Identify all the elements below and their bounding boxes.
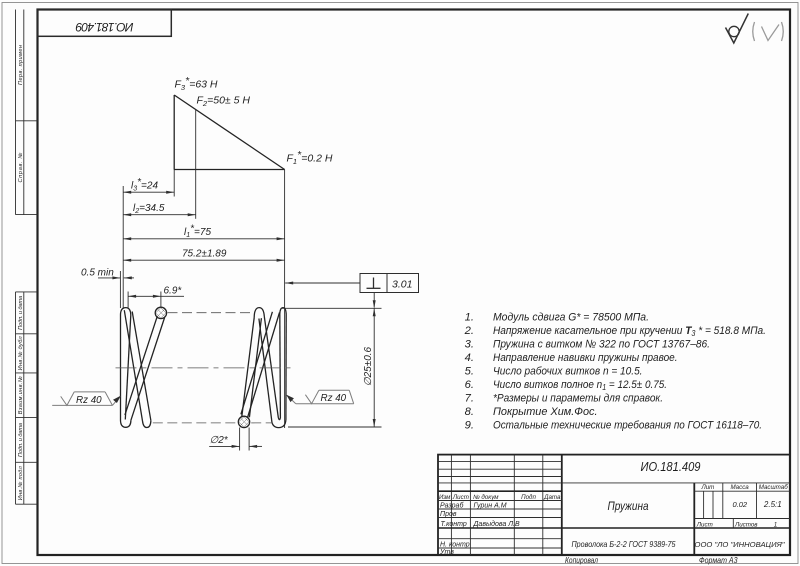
svg-text:ИО.181.409: ИО.181.409 xyxy=(641,459,701,474)
svg-text:0.5 min: 0.5 min xyxy=(81,267,114,278)
end coil top bend xyxy=(121,308,131,315)
right coil group xyxy=(238,308,286,428)
svg-text:Число витков полное n1 = 12.5±: Число витков полное n1 = 12.5± 0.75. xyxy=(493,379,667,392)
dimension ⌀25±0.6 xyxy=(282,308,382,427)
roughness Rz 40 right xyxy=(286,390,353,404)
svg-text:3.: 3. xyxy=(465,338,474,350)
right coil ascending wire front edge xyxy=(242,318,254,417)
F2 ordinate line xyxy=(195,110,197,219)
svg-text:Модуль сдвига G* = 78500 МПа.: Модуль сдвига G* = 78500 МПа. xyxy=(493,311,649,323)
title block texts xyxy=(439,484,788,529)
svg-text:9.: 9. xyxy=(465,419,474,431)
svg-text:Инв.№ дубл: Инв.№ дубл xyxy=(18,335,24,370)
svg-text:Направление навивки пружины пр: Направление навивки пружины правое. xyxy=(493,352,678,364)
svg-text:Лит: Лит xyxy=(700,484,714,491)
right coil descending wire front edge xyxy=(259,319,272,420)
svg-text:Напряжение касательное при кру: Напряжение касательное при кручении Т3 *… xyxy=(493,325,766,338)
force diagram triangle xyxy=(174,95,284,170)
svg-text:Разраб: Разраб xyxy=(440,502,464,510)
right coil ascending wire back edge xyxy=(249,318,261,417)
coil descending wire back edge xyxy=(132,312,151,421)
extension lines xyxy=(120,170,284,429)
phantom dashed bottom line xyxy=(153,422,238,424)
svg-text:Rz 40: Rz 40 xyxy=(76,395,102,406)
svg-text:Покрытие Хим.Фос.: Покрытие Хим.Фос. xyxy=(493,406,598,418)
svg-text:Листов: Листов xyxy=(734,522,758,529)
svg-text:Дата: Дата xyxy=(543,494,561,501)
coil bottom bend right xyxy=(143,421,151,428)
end coil inner edge xyxy=(125,315,131,420)
svg-text:Пружина с витком № 322 по ГОСТ: Пружина с витком № 322 по ГОСТ 13767–86. xyxy=(493,338,710,350)
end coil outer edge xyxy=(120,315,122,421)
svg-text:Масса: Масса xyxy=(730,484,749,491)
spring xyxy=(121,307,167,427)
svg-text:Пружина: Пружина xyxy=(608,499,649,513)
svg-text:Масштаб: Масштаб xyxy=(759,484,789,491)
svg-text:Лист: Лист xyxy=(696,522,713,529)
right coil descending wire back edge xyxy=(264,317,278,418)
svg-text:Пров: Пров xyxy=(440,511,457,518)
left column lower block xyxy=(16,292,38,504)
technical requirements xyxy=(464,311,766,431)
svg-text:Взаим.инв.№: Взаим.инв.№ xyxy=(18,376,24,414)
svg-text:Давыдова Л.В: Давыдова Л.В xyxy=(473,520,520,528)
coil descending wire front edge xyxy=(124,310,142,421)
svg-text:Формат А3: Формат А3 xyxy=(699,556,738,565)
title block xyxy=(438,455,790,555)
svg-text:7.: 7. xyxy=(465,392,474,404)
svg-text:Подп. и дата: Подп. и дата xyxy=(18,423,24,457)
coil ascending wire back edge xyxy=(125,316,157,415)
right end coil inner edge xyxy=(279,314,282,418)
svg-text:∅25±0.6: ∅25±0.6 xyxy=(363,346,374,386)
svg-text:6.: 6. xyxy=(465,379,474,391)
svg-text:1: 1 xyxy=(774,522,777,529)
svg-text:2.: 2. xyxy=(464,325,474,337)
end coil bottom bend xyxy=(121,420,131,427)
svg-text:8.: 8. xyxy=(465,406,474,418)
svg-text:2.5:1: 2.5:1 xyxy=(763,500,782,509)
svg-text:Инв.№ подл: Инв.№ подл xyxy=(18,465,24,500)
spring axis line xyxy=(116,367,291,369)
dimension l1*=75 xyxy=(123,224,284,241)
coil ascending wire front edge xyxy=(131,318,165,421)
svg-text:75.2±1.89: 75.2±1.89 xyxy=(182,249,227,260)
svg-text:∅2*: ∅2* xyxy=(210,435,229,446)
dimension 75.2±1.89 xyxy=(123,249,284,262)
svg-text:Число рабочих витков n = 10.5.: Число рабочих витков n = 10.5. xyxy=(493,365,643,377)
right coil bottom bend xyxy=(272,420,286,428)
right wire section circle xyxy=(238,416,249,427)
right coil top bend xyxy=(254,308,264,318)
dimension l2=34.5 xyxy=(123,203,196,216)
right back wire back edge xyxy=(241,312,273,415)
svg-text:Справ. №: Справ. № xyxy=(18,153,24,183)
right coil inner bottom notch xyxy=(278,418,280,420)
phantom dashed top line xyxy=(168,312,254,314)
svg-text:6.9*: 6.9* xyxy=(164,286,183,297)
svg-text:Лист: Лист xyxy=(452,494,469,501)
svg-text:Перв. примен: Перв. примен xyxy=(18,45,24,85)
svg-text:Изм: Изм xyxy=(439,494,451,501)
svg-text:Подп: Подп xyxy=(521,494,536,501)
svg-text:3.01: 3.01 xyxy=(392,278,412,290)
top-left designation box xyxy=(38,10,172,37)
right back wire front edge xyxy=(248,313,280,418)
tolerance frame ⊥ 3.01 xyxy=(285,274,418,309)
top-right roughness symbol xyxy=(726,14,749,44)
svg-text:Rz 40: Rz 40 xyxy=(321,393,347,404)
dimension 6.9* xyxy=(128,286,184,298)
wire section circle xyxy=(155,307,166,318)
bracketed roughness mark xyxy=(753,22,784,41)
dimension l3*=24 xyxy=(123,177,174,194)
dimension 0.5 min xyxy=(81,267,134,279)
svg-text:Проволока Б-2-2 ГОСТ 9389-75: Проволока Б-2-2 ГОСТ 9389-75 xyxy=(572,539,676,549)
svg-text:Гурин А.М: Гурин А.М xyxy=(474,503,507,510)
svg-text:Н. контр: Н. контр xyxy=(440,542,470,549)
svg-text:ООО "ЛО "ИННОВАЦИЯ": ООО "ЛО "ИННОВАЦИЯ" xyxy=(695,540,785,549)
dimension ⌀2* xyxy=(209,428,262,451)
svg-text:Остальные технические требован: Остальные технические требования по ГОСТ… xyxy=(493,419,762,431)
right end coil top bend xyxy=(280,308,286,315)
svg-text:*Размеры и параметы для справо: *Размеры и параметы для справок. xyxy=(493,392,663,404)
svg-text:0.02: 0.02 xyxy=(732,500,747,509)
left column upper block xyxy=(16,10,38,215)
svg-text:№ докум: № докум xyxy=(473,494,499,501)
right end coil outer edge xyxy=(285,315,287,420)
svg-text:Т.контр: Т.контр xyxy=(441,521,467,528)
svg-text:Копировал: Копировал xyxy=(565,556,599,565)
svg-text:ИО.181.409: ИО.181.409 xyxy=(75,20,133,34)
svg-text:4.: 4. xyxy=(465,352,474,364)
svg-text:Утв: Утв xyxy=(439,549,454,556)
roughness Rz 40 left xyxy=(52,392,121,406)
svg-text:1.: 1. xyxy=(465,311,474,323)
svg-text:Подп. и дата: Подп. и дата xyxy=(18,296,24,330)
svg-text:5.: 5. xyxy=(465,365,474,377)
